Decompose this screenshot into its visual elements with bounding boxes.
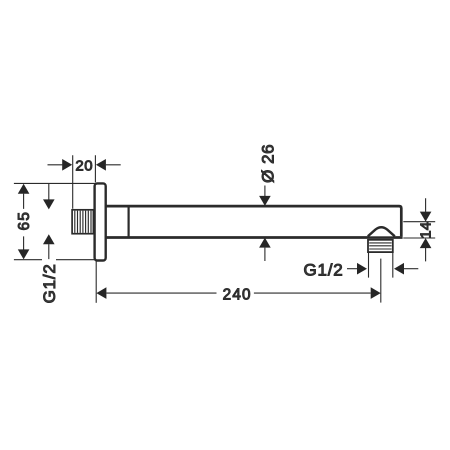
dim 240: left extension line (95, 261, 97, 303)
dim 240: left arrow (points left) (96, 287, 106, 299)
dim 20: left arrow (62, 159, 72, 171)
dim G1/2 left: leader lines (48, 183, 50, 259)
dim 65: extension lines (14, 183, 96, 259)
svg-text:240: 240 (223, 286, 252, 303)
dim &#216;26: bottom arrow (points up to tube bottom) (259, 238, 271, 248)
dim &#216;26: top leader (264, 186, 266, 197)
dim 240: dimension line (106, 292, 370, 294)
svg-text:65: 65 (16, 211, 33, 231)
dim &#216;26: bottom leader (264, 248, 266, 261)
svg-text:14: 14 (417, 222, 434, 239)
dim 20: right arrow (96, 159, 106, 171)
svg-text:Ø 26: Ø 26 (258, 144, 277, 183)
tube joint line (128, 206, 130, 237)
outlet dome (368, 227, 395, 236)
outlet pipe edges (369, 253, 393, 278)
dim G1/2 right: right leader (404, 268, 418, 270)
outlet thread (hatched block) (368, 240, 393, 252)
dim 14: leader tails (425, 198, 427, 261)
dim G1/2 left: upper arrow (points down to thread top) (43, 199, 55, 209)
wall thread (hatched block left of flange) (72, 210, 93, 234)
dim 20: extension lines (73, 155, 96, 209)
tube (horizontal shower arm) (105, 206, 403, 237)
dim G1/2 right: left arrow (points right) (357, 263, 367, 275)
dim 20: dimension line tails (48, 164, 121, 166)
dim G1/2 right: left leader (347, 268, 357, 270)
dim 14: upper arrow (points down) (420, 212, 432, 222)
dim G1/2 right: right arrow (points left) (394, 263, 404, 275)
dim 65: top arrow (18, 184, 30, 194)
outlet centerline (380, 259, 382, 303)
dim 14: lower arrow (points up) (420, 238, 432, 248)
svg-text:G1/2: G1/2 (304, 261, 344, 280)
dim 14: extension lines (403, 222, 435, 238)
dim 65: bottom arrow (18, 249, 30, 259)
dim 240: right arrow (points right) (371, 287, 381, 299)
wall flange (escutcheon) (95, 183, 106, 260)
svg-text:G1/2: G1/2 (40, 263, 59, 303)
dim &#216;26: top arrow (points down to tube top) (259, 196, 271, 206)
svg-text:20: 20 (75, 157, 93, 174)
dim G1/2 left: lower arrow (points up to thread bottom) (43, 234, 55, 244)
dim 65: dimension line (23, 194, 25, 250)
